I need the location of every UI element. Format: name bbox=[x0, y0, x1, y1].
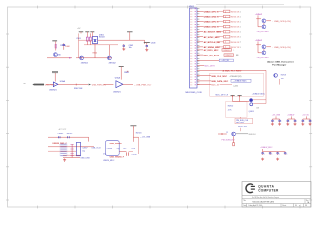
label C4905 bbox=[58, 133, 64, 135]
svg-text:ACT BYP: ACT BYP bbox=[59, 128, 67, 131]
transistor pair Q4902 USB over-current 2 bbox=[255, 39, 291, 59]
svg-text:LMV321: LMV321 bbox=[113, 92, 121, 94]
svg-text:→ USB_OC5#(+5V): → USB_OC5#(+5V) bbox=[271, 21, 291, 23]
svg-text:R4902 1K: R4902 1K bbox=[231, 21, 240, 23]
svg-text:R4921: R4921 bbox=[67, 133, 73, 135]
net label SMB_CLK row bbox=[197, 76, 242, 78]
net label +5V arrow bbox=[140, 137, 151, 139]
ground under C302 bbox=[122, 48, 125, 51]
svg-text:SMB_CLK_MDC: SMB_CLK_MDC bbox=[211, 76, 227, 78]
svg-text:47p: 47p bbox=[117, 148, 120, 150]
cap C4909 marks bbox=[127, 152, 129, 155]
label R308 bbox=[124, 72, 129, 74]
wire left vertical bbox=[78, 33, 80, 57]
left border stub bbox=[24, 83, 26, 85]
svg-text:U30A: U30A bbox=[60, 80, 66, 83]
connector J4901 pin stubs bbox=[197, 9, 199, 85]
svg-text:J4901: J4901 bbox=[189, 6, 195, 8]
label D301 SS14 bbox=[99, 34, 105, 38]
wire VCC3 to diode bbox=[91, 33, 93, 36]
wire A_MDC_PLT_RST row bbox=[197, 69, 266, 71]
svg-text:0: 0 bbox=[225, 26, 226, 28]
svg-text:R305: R305 bbox=[93, 52, 97, 54]
net label MDC_DET row bbox=[197, 66, 216, 68]
label A_MDC_PLT_RST bbox=[223, 69, 243, 72]
label R4911 bbox=[227, 132, 229, 134]
wire bars down bbox=[233, 95, 240, 101]
resistor row R4901 net USB20_DN5_C bbox=[197, 15, 241, 18]
svg-text:R4905 1K: R4905 1K bbox=[231, 37, 240, 39]
wire bottom rail bbox=[76, 57, 112, 59]
decoupling pair cluster 1 +5V bbox=[271, 115, 283, 126]
svg-text:COMPUTER: COMPUTER bbox=[258, 188, 279, 192]
svg-text:USB_VBUS5: USB_VBUS5 bbox=[110, 143, 123, 145]
svg-text:R4918: R4918 bbox=[281, 74, 286, 76]
svg-text:MDC2005: MDC2005 bbox=[236, 122, 244, 124]
transistor Q302 bbox=[107, 56, 111, 60]
transistor Q301 bbox=[80, 56, 84, 60]
wire diode down bbox=[94, 44, 96, 58]
svg-text:AZ_RST#_MDC: AZ_RST#_MDC bbox=[204, 49, 219, 52]
svg-text:LMV321: LMV321 bbox=[49, 90, 57, 92]
svg-text:1: 1 bbox=[240, 37, 241, 39]
svg-text:R4903 1K: R4903 1K bbox=[231, 27, 240, 29]
connector J4901 pin numbers bbox=[195, 8, 196, 85]
power bar VCC4 bbox=[127, 32, 133, 34]
Quanta logo bbox=[246, 184, 255, 193]
label Q4905 out net bbox=[249, 134, 257, 136]
svg-text:0: 0 bbox=[225, 32, 226, 34]
capacitor C310 bbox=[63, 43, 65, 46]
connector J4901 pin names bbox=[190, 9, 192, 86]
svg-text:38: 38 bbox=[305, 205, 307, 207]
svg-text:R4910: R4910 bbox=[228, 105, 233, 107]
net label +3VALW boxed bbox=[231, 79, 251, 83]
label C301 bbox=[76, 38, 81, 40]
power bar VCC5 bbox=[144, 43, 150, 45]
label USB20 bottom bbox=[103, 160, 115, 162]
svg-text:+3VALW_MDC: +3VALW_MDC bbox=[252, 92, 266, 95]
svg-text:R22: R22 bbox=[123, 148, 126, 150]
label VBUS red bbox=[110, 143, 123, 145]
wire trunk right bbox=[130, 39, 145, 41]
svg-text:R308: R308 bbox=[124, 72, 129, 74]
svg-text:1: 1 bbox=[240, 16, 241, 18]
svg-text:R4901 1K: R4901 1K bbox=[231, 16, 240, 18]
svg-text:USB20_DN5_C: USB20_DN5_C bbox=[204, 16, 220, 18]
transistor pair Q4901 USB over-current 1 bbox=[255, 13, 291, 33]
svg-text:1: 1 bbox=[240, 47, 241, 49]
svg-text:AZ_SYNC_MDC: AZ_SYNC_MDC bbox=[204, 36, 221, 39]
svg-text:MDC_INT_EXT#: MDC_INT_EXT# bbox=[204, 55, 220, 57]
svg-text:0: 0 bbox=[225, 16, 226, 18]
svg-text:R4900 1K: R4900 1K bbox=[231, 11, 240, 13]
smb pink box bbox=[210, 73, 264, 96]
svg-text:GND_USB: GND_USB bbox=[80, 158, 90, 160]
capacitor C303 bbox=[146, 44, 148, 47]
power bar VCC3 bbox=[90, 32, 94, 34]
svg-text:R4906 1K: R4906 1K bbox=[231, 42, 240, 44]
label VBUS2 red bbox=[110, 156, 125, 158]
label Q30 2N7002 bbox=[57, 55, 62, 57]
faint labels above usb bbox=[59, 128, 67, 131]
svg-text:MDC_3V: MDC_3V bbox=[211, 85, 220, 87]
wire usb row 4 bbox=[63, 154, 80, 156]
label +3VALW_MDC top bbox=[252, 92, 266, 95]
svg-text:USB20_DP6_C: USB20_DP6_C bbox=[204, 22, 219, 24]
wire label to U31 bbox=[104, 84, 113, 86]
wire trunk top bbox=[98, 39, 130, 41]
resistor R310 bbox=[55, 44, 57, 48]
ground usb bbox=[63, 158, 66, 161]
svg-text:47p: 47p bbox=[103, 154, 106, 156]
resistor row R4904 net AZ_SDOUT_MDC bbox=[197, 30, 241, 33]
svg-text:R4908 0: R4908 0 bbox=[224, 50, 231, 52]
label C4907 parts bbox=[82, 148, 87, 153]
label PM_SUSCLK bbox=[222, 140, 236, 142]
svg-text:+3VALW: +3VALW bbox=[255, 39, 262, 42]
label USB_PWR net bbox=[45, 84, 55, 86]
svg-text:PM_EXTSMI#: PM_EXTSMI# bbox=[257, 31, 270, 33]
power bar U31 bbox=[119, 67, 124, 69]
svg-text:+3VALW_MDC: +3VALW_MDC bbox=[260, 146, 273, 149]
junction tick bbox=[75, 84, 77, 86]
svg-text:MDC_DET#_R: MDC_DET#_R bbox=[216, 94, 229, 96]
label 0.1u right bbox=[123, 148, 136, 156]
svg-text:Rev: Rev bbox=[306, 200, 309, 202]
ground under C303 bbox=[145, 48, 148, 51]
svg-text:R307 10K: R307 10K bbox=[74, 88, 83, 90]
svg-text:100K: 100K bbox=[65, 46, 70, 48]
power flag +5VALW bbox=[52, 40, 57, 42]
op-amp U31 bbox=[116, 81, 123, 88]
svg-text:C4905: C4905 bbox=[58, 133, 64, 135]
resistor R302 bbox=[89, 33, 91, 44]
wire Q4903 down bbox=[239, 117, 241, 118]
label R4921 bbox=[67, 133, 73, 135]
power bar VCC2 bbox=[85, 32, 89, 34]
usb common-mode choke L4901 bbox=[60, 144, 67, 156]
label R4915 bbox=[238, 126, 248, 128]
net label SMB_DATA row bbox=[197, 80, 229, 83]
power flag for U30 bbox=[52, 71, 58, 73]
sheet border frame bbox=[8, 7, 311, 207]
decoupling pair cluster 3 +3VS bbox=[301, 115, 313, 126]
wire below label box bbox=[239, 128, 241, 131]
label U31 bbox=[115, 76, 121, 79]
wire usb row 2 bbox=[48, 146, 94, 148]
svg-text:10u: 10u bbox=[129, 47, 132, 49]
svg-text:C4907: C4907 bbox=[82, 148, 87, 150]
label 10K grey bbox=[256, 108, 260, 110]
svg-text:USB20_MDC: USB20_MDC bbox=[103, 160, 115, 162]
power bar pair 2 bbox=[238, 95, 242, 97]
wire Q4905 down bbox=[233, 136, 235, 143]
svg-text:SUSCLK: SUSCLK bbox=[249, 134, 257, 136]
op-amp U30 bbox=[53, 82, 58, 87]
resistor row R4905 net AZ_SYNC_MDC bbox=[197, 36, 241, 39]
label LMV321 U30 bbox=[49, 90, 57, 92]
label MDC_CON bottom bbox=[186, 92, 202, 94]
usb filter block bbox=[76, 142, 80, 155]
net label bottom row bbox=[197, 85, 238, 88]
label R307 10K bbox=[74, 88, 83, 90]
decoupling pair cluster 2 +3V bbox=[286, 114, 298, 126]
svg-text:12p: 12p bbox=[82, 150, 85, 152]
svg-text:1: 1 bbox=[240, 21, 241, 23]
wire VCC4 down bbox=[129, 33, 131, 40]
svg-text:AZ_SDOUT_MDC: AZ_SDOUT_MDC bbox=[204, 31, 222, 34]
usb esd array U4902 bbox=[70, 144, 73, 157]
resistor row R4908 bbox=[197, 49, 235, 52]
svg-text:R4907 1K: R4907 1K bbox=[231, 47, 240, 49]
svg-text:USB_PWR_EN: USB_PWR_EN bbox=[92, 85, 106, 87]
resistor row R4909 bbox=[197, 54, 239, 57]
svg-text:0: 0 bbox=[225, 37, 226, 39]
label USB_PWR_EN bbox=[92, 85, 106, 87]
svg-text:1: 1 bbox=[240, 32, 241, 34]
wire Q302 up bbox=[108, 45, 110, 56]
wire mid row bbox=[84, 44, 118, 46]
label MDC_DET_R blue bbox=[216, 94, 229, 96]
connector J4901 body bbox=[190, 8, 198, 88]
svg-text:→+5V_USB: →+5V_USB bbox=[140, 137, 151, 139]
transistor Q4905 bbox=[232, 132, 236, 136]
label LMV321 U31 bbox=[113, 92, 121, 94]
svg-text:SD103: SD103 bbox=[99, 37, 105, 39]
svg-text:AZ_SDIN0_MDC: AZ_SDIN0_MDC bbox=[204, 46, 221, 49]
svg-text:2N7002: 2N7002 bbox=[81, 62, 89, 64]
svg-text:SMB_DATA_MDC: SMB_DATA_MDC bbox=[211, 80, 229, 83]
svg-text:U31A: U31A bbox=[115, 76, 121, 79]
wire U30 power bbox=[54, 73, 56, 82]
net label +3V row bbox=[197, 59, 233, 62]
diode D301 bbox=[92, 37, 97, 44]
transistor Q4904 cluster bbox=[274, 74, 286, 85]
resistor row R4900 net USB20_DP5_C bbox=[197, 10, 241, 13]
svg-text:No.188 Wen Hwa 2nd Rd. Kueisha: No.188 Wen Hwa 2nd Rd. Kueishan Taoyuan bbox=[252, 197, 279, 199]
wire +5V_USB down bbox=[132, 127, 134, 142]
wire net row A bbox=[47, 57, 72, 59]
svg-text:+3V_S5: +3V_S5 bbox=[302, 115, 309, 117]
power bar pair 1 bbox=[231, 95, 235, 97]
svg-text:AZ_BITCLK_MD: AZ_BITCLK_MD bbox=[204, 41, 221, 44]
wire from +5VALW down bbox=[55, 41, 57, 50]
wire right rail down bbox=[144, 40, 146, 44]
svg-text:USB20_DP5_C: USB20_DP5_C bbox=[204, 11, 219, 13]
svg-text:→+3VALW_MDC: →+3VALW_MDC bbox=[232, 80, 247, 83]
power bar VCC1 bbox=[79, 32, 84, 34]
wire usb row 3 bbox=[48, 150, 76, 152]
cap series mark 2 bbox=[68, 136, 70, 138]
wire vertical to Q4903 loop bbox=[265, 70, 267, 100]
wire cap C310 stub bbox=[63, 47, 65, 50]
wire R308 vertical bbox=[120, 68, 122, 79]
svg-text:0: 0 bbox=[225, 42, 226, 44]
resistor row R4902 net USB20_DP6_C bbox=[197, 20, 241, 23]
resistor R301 bbox=[86, 33, 88, 44]
cap series mark 1 bbox=[58, 136, 60, 138]
label output net bbox=[134, 84, 153, 86]
svg-text:C4908: C4908 bbox=[107, 148, 112, 150]
svg-text:4.7K/0402 (X2): 4.7K/0402 (X2) bbox=[230, 76, 242, 78]
svg-text:0: 0 bbox=[225, 21, 226, 23]
wire usb corner bbox=[88, 137, 90, 141]
svg-text:→ USB_OC6#(+5V): → USB_OC6#(+5V) bbox=[271, 47, 291, 49]
svg-text:+5V_USB: +5V_USB bbox=[272, 115, 281, 117]
svg-text:+3VALW: +3VALW bbox=[287, 114, 294, 117]
resistor row R4907 net AZ_SDIN0_MDC bbox=[197, 46, 241, 49]
title row bbox=[243, 199, 310, 204]
label R4920 bbox=[136, 132, 142, 134]
svg-text:Port Manager: Port Manager bbox=[272, 63, 286, 66]
svg-text:C303: C303 bbox=[151, 43, 156, 45]
date row bbox=[243, 204, 307, 208]
svg-text:C4910: C4910 bbox=[132, 154, 137, 156]
svg-text:MDC2005_CON: MDC2005_CON bbox=[186, 92, 202, 94]
resistor row R4906 net AZ_BITCLK_MD bbox=[197, 41, 241, 44]
label R4910 bbox=[228, 105, 233, 111]
label 100K bbox=[65, 46, 70, 48]
power label +5V bbox=[77, 28, 81, 30]
svg-text:(+5V): (+5V) bbox=[234, 85, 239, 87]
svg-text:PM_EXTSMI#: PM_EXTSMI# bbox=[257, 57, 270, 59]
power bar +5V_USB bbox=[130, 126, 136, 128]
label GND blue bbox=[80, 158, 90, 160]
svg-text:1: 1 bbox=[240, 11, 241, 13]
resistor stub red bbox=[233, 143, 235, 146]
svg-text:+3VALW: +3VALW bbox=[255, 13, 262, 16]
wire +5V_USB drop bbox=[133, 137, 138, 154]
svg-text:R4909 0: R4909 0 bbox=[226, 55, 233, 57]
svg-text:1: 1 bbox=[240, 27, 241, 29]
svg-text:Q4903: Q4903 bbox=[249, 111, 254, 113]
wire U31 out bbox=[123, 83, 134, 85]
svg-text:USB20_DN6_C: USB20_DN6_C bbox=[204, 27, 220, 29]
box usb right section bbox=[105, 141, 119, 156]
label J4901 top bbox=[189, 6, 195, 8]
svg-text:0.1u: 0.1u bbox=[132, 148, 136, 150]
off-page arrow USB_PWR bbox=[32, 84, 44, 86]
Quanta name bbox=[258, 185, 279, 193]
svg-text:2N7002: 2N7002 bbox=[109, 62, 117, 64]
wire into Q4905 bbox=[218, 133, 227, 135]
svg-text:R4920: R4920 bbox=[136, 132, 142, 134]
wire usb bottom bbox=[63, 157, 80, 159]
box R4910 outline bbox=[226, 102, 247, 118]
address line bbox=[252, 197, 279, 199]
label C303 bbox=[151, 43, 156, 45]
junction node A bbox=[69, 57, 70, 58]
wire U30 out bbox=[58, 84, 88, 86]
wire usb right bottom bbox=[119, 151, 133, 153]
wire Q4903 feedback loop bbox=[253, 100, 266, 104]
title block frame bbox=[242, 182, 311, 208]
wire Q4905 out bbox=[236, 133, 248, 135]
svg-text:0: 0 bbox=[225, 11, 226, 13]
svg-text:30: 30 bbox=[295, 205, 297, 207]
label USB_OC blue bbox=[92, 148, 101, 150]
wire arrow to U30 bbox=[46, 84, 53, 86]
resistor row R4903 net USB20_DN6_C bbox=[197, 25, 241, 28]
svg-text:→ USB_PWR_OC#: → USB_PWR_OC# bbox=[134, 84, 153, 86]
label U30 bbox=[60, 80, 66, 83]
box PCH label bbox=[235, 118, 253, 124]
transistor Q30 bbox=[53, 53, 57, 57]
svg-text:A_MDC_PLT_RST#: A_MDC_PLT_RST# bbox=[223, 69, 243, 72]
label 47p bbox=[103, 148, 119, 156]
svg-text:Above: USB_Overcurrent: Above: USB_Overcurrent bbox=[267, 60, 294, 63]
wire rail to Q4903 bbox=[233, 101, 250, 103]
note text above USB bbox=[267, 60, 294, 66]
svg-text:1: 1 bbox=[240, 42, 241, 44]
label R310 bbox=[60, 45, 66, 47]
capacitor C302 bbox=[123, 44, 125, 47]
svg-text:R4915 10K: R4915 10K bbox=[238, 126, 248, 128]
red tick R308 bbox=[127, 70, 129, 72]
svg-text:USB_OC5#: USB_OC5# bbox=[92, 148, 101, 150]
svg-text:R4904 1K: R4904 1K bbox=[231, 32, 240, 34]
wire usb row 1 bbox=[48, 136, 89, 138]
faint header line bbox=[196, 4, 284, 6]
wire trunk left bbox=[79, 39, 93, 41]
net arrow mid bbox=[89, 84, 91, 86]
label Q302 2N7002 bbox=[109, 62, 117, 64]
label C302 10u bbox=[129, 45, 134, 49]
label R305 bbox=[93, 52, 97, 54]
svg-text:USB_VBUS5_F: USB_VBUS5_F bbox=[110, 156, 125, 158]
svg-text:→+3V_S5: →+3V_S5 bbox=[220, 60, 229, 62]
transistor Q4903 bbox=[249, 98, 254, 112]
label USB2 DN bold bbox=[52, 143, 67, 145]
label Q301 2N7002 bbox=[81, 62, 89, 64]
label C4908 bbox=[107, 148, 112, 150]
svg-text:MDC_DET#: MDC_DET# bbox=[204, 66, 216, 68]
decoupling row cluster C4901-C4904 bbox=[260, 146, 288, 160]
